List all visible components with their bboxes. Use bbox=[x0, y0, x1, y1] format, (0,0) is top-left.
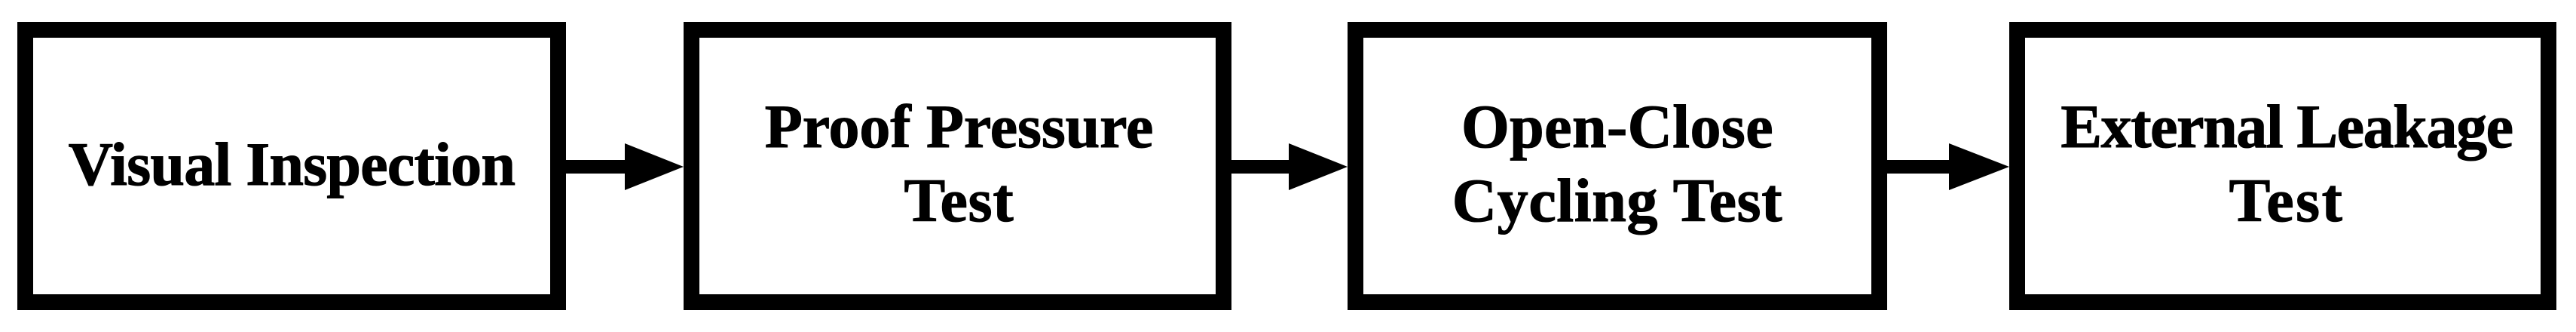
wire: arrow 2 (box 2 to box 3) bbox=[1231, 143, 1348, 190]
box 1: Visual Inspection bbox=[17, 22, 566, 310]
box 4: External Leakage Test bbox=[2009, 22, 2556, 310]
wire: arrow 3 (box 3 to box 4) bbox=[1887, 143, 2009, 190]
box 2: Proof Pressure Test bbox=[684, 22, 1231, 310]
box 3: Open-Close Cycling Test bbox=[1348, 22, 1887, 310]
wire: arrow 1 (box 1 to box 2) bbox=[566, 143, 684, 190]
